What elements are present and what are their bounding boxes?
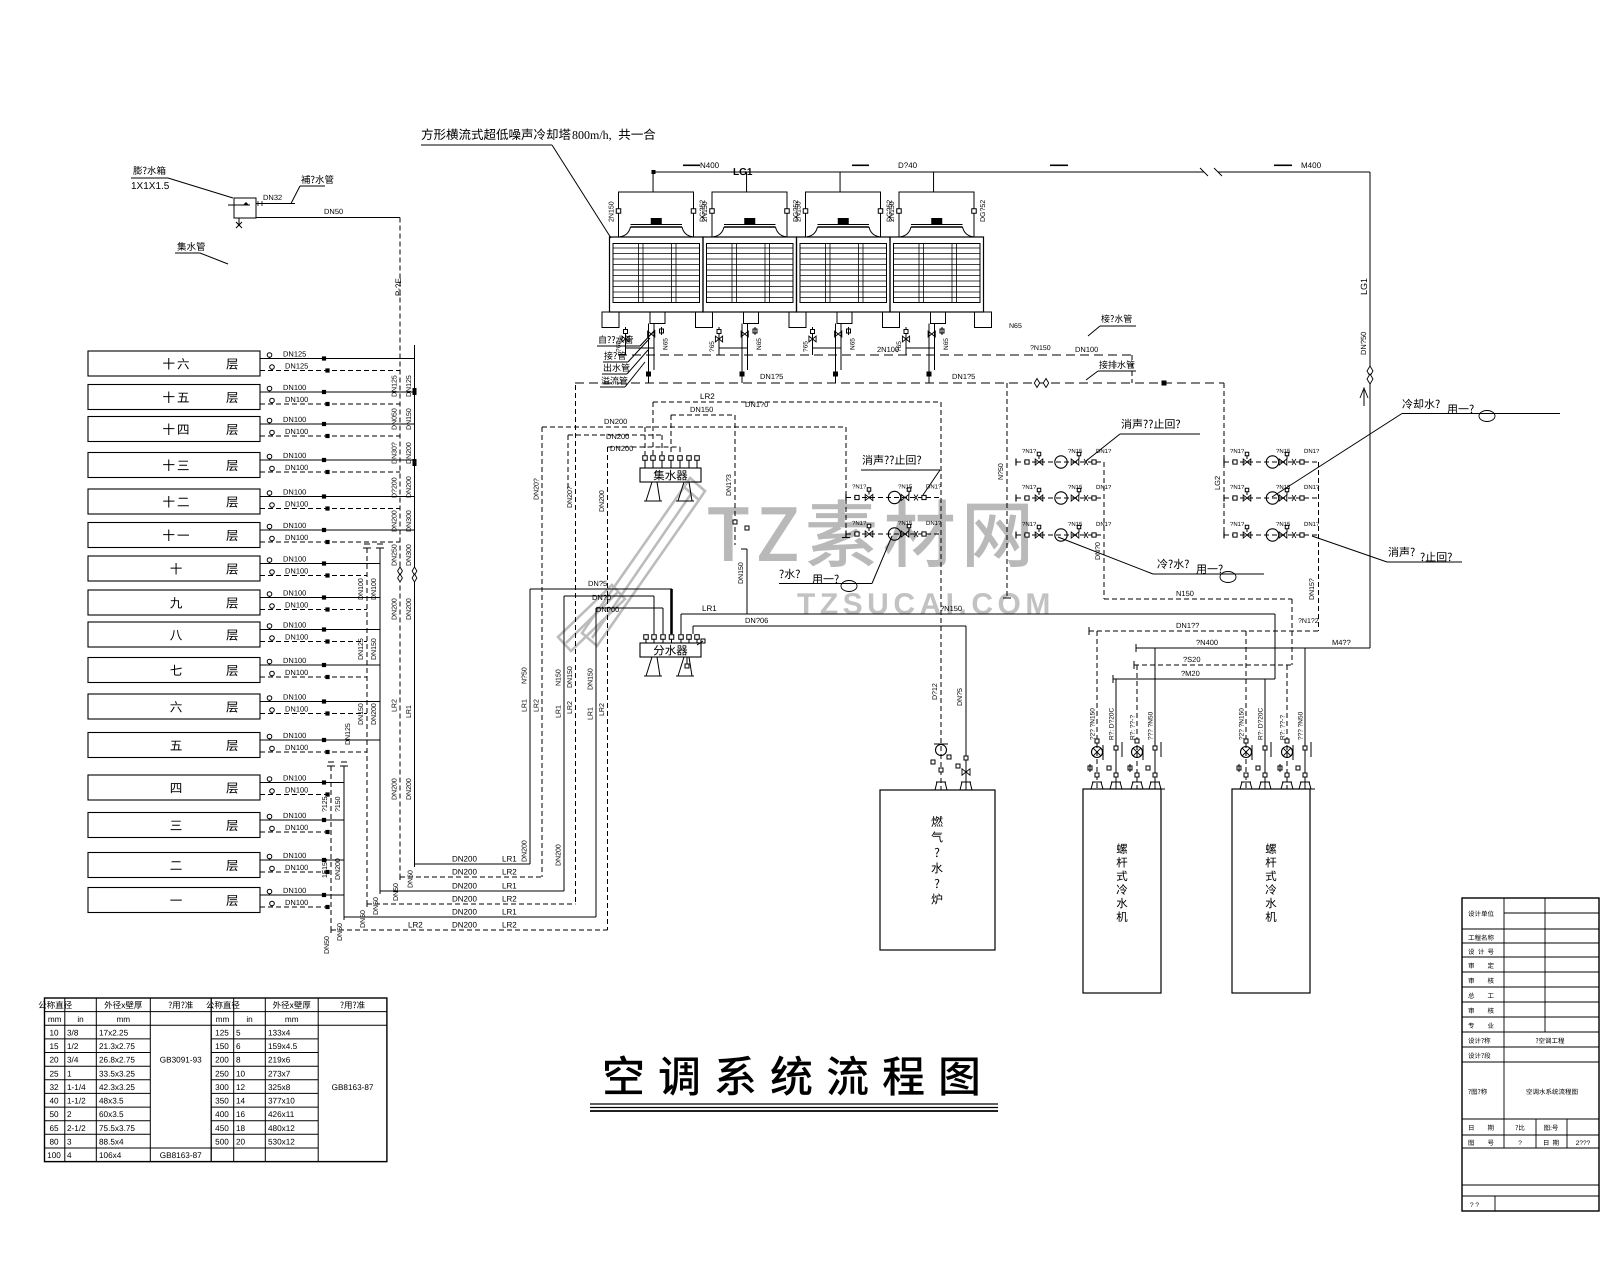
pump group 2 row 2 (1016, 497, 1104, 499)
floor box 六层 (88, 694, 260, 719)
svg-text:R?: ??-?: R?: ??-? (1280, 715, 1287, 740)
cooling tower CT4 louver panel (894, 244, 981, 303)
svg-text:?N1?: ?N1? (1230, 448, 1245, 455)
svg-text:N150: N150 (556, 669, 563, 686)
svg-text:2N100: 2N100 (877, 345, 899, 354)
wire DN50 tank to riser (256, 217, 400, 219)
svg-text:20: 20 (49, 1056, 59, 1065)
svg-text:DN50: DN50 (337, 923, 344, 941)
wire DN32 from tank (256, 203, 295, 205)
boiler nozzles (931, 782, 951, 790)
svg-text:DN300: DN300 (406, 510, 413, 532)
floor 十四层 return valve (325, 434, 329, 438)
svg-text:DN200: DN200 (452, 855, 477, 864)
svg-text:?N1?: ?N1? (1022, 448, 1037, 455)
svg-text:10: 10 (49, 1028, 59, 1037)
wire boiler supply riser x=966 (965, 626, 967, 790)
watermark logo beam (gray) (558, 478, 705, 651)
floor 十一层 supply wire (260, 529, 415, 531)
svg-text:LR2: LR2 (502, 868, 517, 877)
svg-text:GB8163-87: GB8163-87 (332, 1083, 374, 1092)
wire chiller riser x=1305 (1304, 648, 1306, 789)
svg-text:350: 350 (215, 1097, 229, 1106)
title block frame (1462, 898, 1599, 1211)
svg-text:DN?0: DN?0 (592, 593, 611, 602)
svg-text:GB3091-93: GB3091-93 (160, 1056, 202, 1065)
svg-text:DN200: DN200 (452, 908, 477, 917)
svg-text:DN?06: DN?06 (745, 616, 768, 625)
wire central riser x=596 (595, 608, 597, 917)
svg-text:mm: mm (285, 1015, 299, 1024)
floor box 十二层 (88, 489, 260, 514)
svg-text:DN200: DN200 (452, 882, 477, 891)
floor 二层 supply thermometer (267, 854, 272, 859)
svg-text:273x7: 273x7 (268, 1069, 291, 1078)
cooling tower CT1 fan bell (620, 227, 693, 237)
floor 十四层 supply wire (260, 423, 415, 425)
svg-text:DN250: DN250 (392, 544, 399, 566)
svg-text:?65: ?65 (803, 341, 810, 352)
chiller feed pump at x=1246 (1241, 747, 1252, 758)
svg-text:50: 50 (49, 1110, 59, 1119)
svg-text:DN050: DN050 (392, 408, 399, 430)
floor 十三层 return thermometer (270, 466, 275, 471)
svg-text:LR1: LR1 (502, 908, 517, 917)
floor 五层 return valve (325, 750, 329, 754)
cooling tower CT1 body (610, 237, 704, 312)
svg-text:325x8: 325x8 (268, 1083, 291, 1092)
floor 十一层 supply valve (322, 528, 326, 532)
svg-text:377x10: 377x10 (268, 1097, 295, 1106)
floor 三层 supply valve (322, 818, 326, 822)
svg-text:N150: N150 (1176, 589, 1194, 598)
svg-text:DN100: DN100 (283, 621, 306, 630)
svg-text:100: 100 (47, 1151, 61, 1160)
label 消声止回 A (862, 455, 921, 465)
floor 十四层 return wire dashed (260, 435, 400, 437)
svg-text:?N150: ?N150 (1030, 345, 1051, 352)
pipe size table (45, 998, 387, 1162)
pipe break symbols on blowdown header (1034, 379, 1039, 388)
svg-text:DN200: DN200 (406, 476, 413, 498)
svg-text:DN150: DN150 (358, 703, 365, 725)
floor 八层 supply wire (260, 629, 380, 631)
title underline (590, 1103, 998, 1105)
svg-text:DN200: DN200 (392, 510, 399, 532)
floor 十三层 return wire dashed (260, 471, 400, 473)
cooling tower CT4 header drop (933, 172, 935, 192)
svg-text:?N15: ?N15 (1276, 521, 1291, 528)
svg-text:20: 20 (236, 1138, 246, 1147)
svg-text:DN150: DN150 (588, 668, 595, 690)
cooling tower CT4 fan deck (911, 224, 963, 226)
chiller box 2 螺杆式冷水机 (1232, 789, 1310, 993)
pump group 2 row 3 (1016, 534, 1104, 536)
floor 十五层 supply thermometer (267, 386, 272, 391)
wire chiller header dashed y=631 (1089, 630, 1319, 632)
wire chiller riser x=1265 (1264, 679, 1266, 789)
svg-text:DN200: DN200 (606, 432, 629, 441)
anchors on low risers (327, 765, 335, 767)
floor 七层 supply wire (260, 664, 380, 666)
svg-text:DN100: DN100 (358, 578, 365, 600)
svg-text:4: 4 (67, 1151, 72, 1160)
svg-text:DN30?: DN30? (392, 442, 399, 464)
svg-text:N65: N65 (943, 338, 950, 350)
wire central riser x=564 (563, 596, 565, 891)
svg-text:17x2.25: 17x2.25 (99, 1028, 129, 1037)
chiller riser lower valves x=1287 (1278, 766, 1282, 770)
svg-text:DN32: DN32 (263, 193, 282, 202)
svg-text:DN1?: DN1? (1304, 484, 1320, 491)
svg-text:1-1/2: 1-1/2 (67, 1097, 86, 1106)
floor box 十一层 (88, 523, 260, 548)
svg-text:DN100: DN100 (285, 705, 308, 714)
svg-text:LG1: LG1 (1359, 278, 1369, 295)
cooling tower CT3 feet (789, 312, 806, 328)
svg-text:DN150: DN150 (690, 405, 713, 414)
svg-text:R?: ??-?: R?: ??-? (1130, 715, 1137, 740)
floor 九层 supply thermometer (267, 592, 272, 597)
svg-text:DN200: DN200 (452, 895, 477, 904)
wire chiller riser x=1137 dashed (1136, 665, 1138, 789)
svg-text:DN200: DN200 (556, 844, 563, 866)
floor 十六层 return valve (325, 368, 329, 372)
floor 十一层 return valve (325, 540, 329, 544)
floor 二层 return valve (325, 870, 329, 874)
svg-text:DN100: DN100 (283, 656, 306, 665)
floor 十二层 supply thermometer (267, 491, 272, 496)
svg-text:DN300: DN300 (406, 544, 413, 566)
cooling tower CT4 fan bell (901, 227, 974, 237)
pump group 1 suction riser dashed x=846 (845, 427, 847, 538)
svg-text:32: 32 (49, 1083, 59, 1092)
svg-text:DN200: DN200 (335, 858, 342, 880)
svg-text:DN200: DN200 (452, 921, 477, 930)
svg-text:80: 80 (49, 1138, 59, 1147)
floor 八层 supply thermometer (267, 624, 272, 629)
svg-text:60x3.5: 60x3.5 (99, 1110, 124, 1119)
wire LR1 from distributor y=614 (681, 613, 1275, 615)
floor 十五层 supply wire (260, 391, 415, 393)
svg-text:LR2: LR2 (408, 921, 423, 930)
svg-text:LR1: LR1 (702, 604, 717, 613)
wire chiller header y=679 (1113, 678, 1275, 680)
cooling tower CT1 drain pipe (625, 327, 627, 355)
svg-text:26.8x2.75: 26.8x2.75 (99, 1056, 135, 1065)
leader to tank (168, 178, 233, 198)
pump group 3 row 2 (1224, 497, 1319, 499)
leaders from tower labels (640, 330, 655, 346)
floor 二层 supply valve (322, 858, 326, 862)
cooling tower CT3 louver panel (800, 244, 887, 303)
wire chiller header dashed y=665 (1134, 664, 1292, 666)
wire bottom run LR2 y=877 (400, 876, 542, 878)
svg-text:16: 16 (236, 1110, 246, 1119)
expansion tank box (234, 198, 256, 218)
wire LR2 to collector y=402 dashed (653, 401, 941, 403)
floor 十层 supply valve (322, 561, 326, 565)
collector legs (644, 482, 662, 501)
svg-text:DN1??: DN1?? (1176, 621, 1199, 630)
cooling tower CT4 top casing (899, 192, 974, 237)
floor 八层 return wire dashed (260, 641, 367, 643)
floor 四层 return valve (325, 792, 329, 796)
floor 十一层 return wire dashed (260, 541, 400, 543)
svg-text:2???: 2??? (1576, 1140, 1591, 1147)
floor 三层 return thermometer (270, 826, 275, 831)
floor 十三层 return valve (325, 470, 329, 474)
svg-text:DN100: DN100 (285, 743, 308, 752)
svg-text:2N150: 2N150 (796, 201, 803, 222)
label 出水管 (604, 363, 630, 371)
floor 十六层 return thermometer (270, 365, 275, 370)
cooling tower CT2 fan deck (724, 224, 776, 226)
svg-text:800m/h,: 800m/h, (572, 128, 612, 142)
pump group 3 row 3 (1224, 534, 1319, 536)
floor 十六层 supply valve (322, 356, 326, 360)
svg-text:65: 65 (49, 1124, 59, 1133)
distributor 分水器 body (640, 643, 701, 657)
floor box 十六层 (88, 351, 260, 376)
wire central riser x=530 (529, 589, 531, 864)
svg-text:DN100: DN100 (283, 555, 306, 564)
chiller feed pump at x=1097 (1092, 747, 1103, 758)
cooling tower CT4 feet (883, 312, 900, 328)
floor 二层 return wire dashed (260, 871, 331, 873)
svg-text:DN50: DN50 (360, 910, 367, 928)
floor 十二层 return thermometer (270, 503, 275, 508)
label 補水管 (301, 175, 333, 184)
svg-text:?N1?: ?N1? (1230, 484, 1245, 491)
floor 二层 return thermometer (270, 866, 275, 871)
svg-text:2N150: 2N150 (889, 201, 896, 222)
svg-text:21.3x2.75: 21.3x2.75 (99, 1042, 135, 1051)
chiller riser lower valves x=1137 (1128, 766, 1132, 770)
svg-text:1F150: 1F150 (322, 858, 329, 878)
cooling tower CT3 fan bell (807, 227, 880, 237)
title block text (1468, 910, 1493, 916)
wire central riser dashed x=542 (541, 427, 543, 877)
cooling tower CT2 side pipe valves (710, 209, 715, 214)
svg-text:DN200: DN200 (392, 778, 399, 800)
svg-text:DN1?: DN1? (926, 520, 942, 527)
svg-text:DN50: DN50 (324, 207, 343, 216)
svg-text:DN200: DN200 (406, 778, 413, 800)
floor 六层 return thermometer (270, 708, 275, 713)
floor 四层 supply valve (322, 780, 326, 784)
floor 十五层 return wire dashed (260, 403, 400, 405)
label 自动补水管 (599, 335, 632, 343)
cooling tower CT4 fan motor (931, 218, 942, 225)
svg-text:R?: D?20C: R?: D?20C (1258, 708, 1265, 740)
diamonds on risers (398, 567, 403, 575)
svg-text:mm: mm (48, 1015, 62, 1024)
svg-text:N65: N65 (850, 338, 857, 350)
svg-text:DN?5: DN?5 (588, 579, 607, 588)
svg-text:DN?5: DN?5 (957, 688, 964, 706)
chiller riser valve at x=1116 (1114, 746, 1118, 750)
svg-text:DN100: DN100 (285, 500, 308, 509)
cooling tower CT1 feet (602, 312, 619, 328)
svg-text:DN100: DN100 (283, 886, 306, 895)
wire riser x=735 dashed (734, 415, 736, 545)
svg-text:LG1: LG1 (733, 167, 753, 178)
svg-text:?N1?: ?N1? (1022, 521, 1037, 528)
svg-text:DN?00: DN?00 (596, 605, 619, 614)
svg-text:DN200: DN200 (392, 598, 399, 620)
svg-text:?125: ?125 (322, 796, 329, 812)
svg-text:??? ?N50: ??? ?N50 (1298, 711, 1305, 740)
label 消声止回 C (1388, 547, 1414, 557)
svg-text:?N15: ?N15 (898, 484, 913, 491)
floor box 三层 (88, 813, 260, 838)
svg-text:DN100: DN100 (283, 589, 306, 598)
cooling tower CT1 fan deck (631, 224, 683, 226)
svg-text:? ?: ? ? (1470, 1202, 1479, 1209)
cooling tower CT3 drain pipe (812, 327, 814, 355)
svg-text:6: 6 (236, 1042, 241, 1051)
svg-text:N65: N65 (663, 338, 670, 350)
svg-text:LR2: LR2 (567, 701, 574, 714)
svg-text:DN200: DN200 (604, 417, 627, 426)
svg-text:DN100: DN100 (285, 898, 308, 907)
svg-text:DN100: DN100 (285, 567, 308, 576)
svg-text:DN100: DN100 (283, 693, 306, 702)
wire riser return mid dashed x=367 (366, 548, 368, 904)
label 接排水管 right (1099, 360, 1134, 368)
svg-text:DN100: DN100 (283, 521, 306, 530)
wire central riser dashed x=575 (575, 385, 577, 904)
cooling tower CT2 drain pipe (718, 327, 720, 355)
floor box 七层 (88, 658, 260, 683)
svg-text:?N15: ?N15 (1068, 448, 1083, 455)
pump group 3 suction riser dashed x=1224 (1223, 383, 1225, 535)
svg-text:400: 400 (215, 1110, 229, 1119)
expansion tank water level line (228, 204, 250, 206)
svg-text:?2? ?N150: ?2? ?N150 (1090, 708, 1097, 740)
cooling tower CT2 top casing (712, 192, 787, 237)
floor box 二层 (88, 853, 260, 878)
wire bottom run LR2 y=930 (331, 929, 608, 931)
svg-text:DN100: DN100 (285, 427, 308, 436)
svg-text:DN200: DN200 (599, 490, 606, 512)
svg-text:DN100: DN100 (285, 601, 308, 610)
svg-text:300: 300 (215, 1083, 229, 1092)
floor box 十三层 (88, 453, 260, 478)
floor 六层 supply wire (260, 701, 380, 703)
svg-text:1X1X1.5: 1X1X1.5 (131, 181, 170, 192)
svg-text:DN125: DN125 (392, 375, 399, 397)
floor 十四层 supply thermometer (267, 418, 272, 423)
svg-text:N65: N65 (1009, 323, 1022, 330)
floor 七层 return wire dashed (260, 676, 367, 678)
boiler box 燃气热水炉 (880, 790, 995, 950)
svg-text:?N400: ?N400 (1196, 638, 1218, 647)
svg-text:in: in (246, 1015, 253, 1024)
floor 十四层 return thermometer (270, 430, 275, 435)
wire riser LR2 return dashed x=400 (399, 218, 401, 878)
svg-text:DN100: DN100 (285, 633, 308, 642)
svg-text:DN200: DN200 (406, 598, 413, 620)
svg-text:LR1: LR1 (556, 705, 563, 718)
cooling tower CT1 outlet pipes (648, 324, 650, 384)
svg-text:125: 125 (215, 1028, 229, 1037)
watermark text TZ素材网 (708, 499, 1028, 567)
svg-text:42.3x3.25: 42.3x3.25 (99, 1083, 135, 1092)
floor 十五层 return valve (325, 402, 329, 406)
cooling tower CT1 side pipe valves (616, 209, 621, 214)
svg-text:in: in (77, 1015, 84, 1024)
svg-text:106x4: 106x4 (99, 1151, 122, 1160)
cooling tower CT3 top casing (806, 192, 881, 237)
svg-text:DN100: DN100 (285, 786, 308, 795)
cooling tower CT4 body (890, 237, 984, 312)
floor 十六层 return wire dashed (260, 370, 400, 372)
label 冷水用一 A (779, 569, 799, 579)
collector 集水器 body (640, 468, 701, 482)
svg-text:250: 250 (215, 1069, 229, 1078)
svg-text:N?50: N?50 (522, 667, 529, 684)
floor 十层 return thermometer (270, 570, 275, 575)
floor 六层 supply valve (322, 699, 326, 703)
chiller riser lower valves x=1116 (1107, 766, 1111, 770)
cooling tower CT3 fan motor (838, 218, 849, 225)
floor 九层 supply valve (322, 595, 326, 599)
label 接管 (604, 351, 626, 359)
svg-text:33.5x3.25: 33.5x3.25 (99, 1069, 135, 1078)
svg-text:DN100: DN100 (283, 383, 306, 392)
cooling tower CT1 louver panel (613, 244, 700, 303)
svg-text:2N150: 2N150 (609, 201, 616, 222)
leader 集水管 (200, 253, 228, 264)
expansion tank drain stub and valve (238, 218, 240, 226)
svg-text:?65: ?65 (709, 341, 716, 352)
svg-text:LR2: LR2 (502, 895, 517, 904)
svg-text:DN200: DN200 (610, 444, 633, 453)
svg-text:?M20: ?M20 (1181, 669, 1200, 678)
wire to distributor y=608 (596, 607, 663, 609)
svg-text:10: 10 (236, 1069, 246, 1078)
svg-text:?150: ?150 (335, 796, 342, 812)
svg-text:DN100: DN100 (285, 395, 308, 404)
floor 六层 supply thermometer (267, 696, 272, 701)
label 溢流管 (601, 376, 627, 384)
floor 二层 supply wire (260, 859, 344, 861)
wire to collector y=427 dashed (542, 426, 846, 428)
svg-text:?N1?: ?N1? (1230, 521, 1245, 528)
floor 七层 return valve (325, 675, 329, 679)
chiller riser lower valves x=1305 (1296, 766, 1300, 770)
svg-text:N?50: N?50 (998, 463, 1005, 480)
svg-text:mm: mm (116, 1015, 130, 1024)
svg-text:25: 25 (49, 1069, 59, 1078)
wire riser x=747 solid (746, 549, 748, 614)
svg-text:DN50: DN50 (408, 870, 415, 888)
svg-text:DN150: DN150 (738, 562, 745, 584)
chiller riser valve at x=1155 (1153, 746, 1157, 750)
svg-text:DN100: DN100 (285, 668, 308, 677)
wire to distributor y=589 (530, 588, 672, 590)
floor 十六层 supply thermometer (267, 353, 272, 358)
svg-text:D?40: D?40 (898, 161, 918, 170)
svg-text:DN100: DN100 (283, 415, 306, 424)
svg-text:DN100: DN100 (285, 533, 308, 542)
floor 九层 supply wire (260, 597, 380, 599)
cooling tower CT1 fan motor (651, 218, 662, 225)
floor 十层 return wire dashed (260, 575, 367, 577)
svg-text:530x12: 530x12 (268, 1138, 295, 1147)
